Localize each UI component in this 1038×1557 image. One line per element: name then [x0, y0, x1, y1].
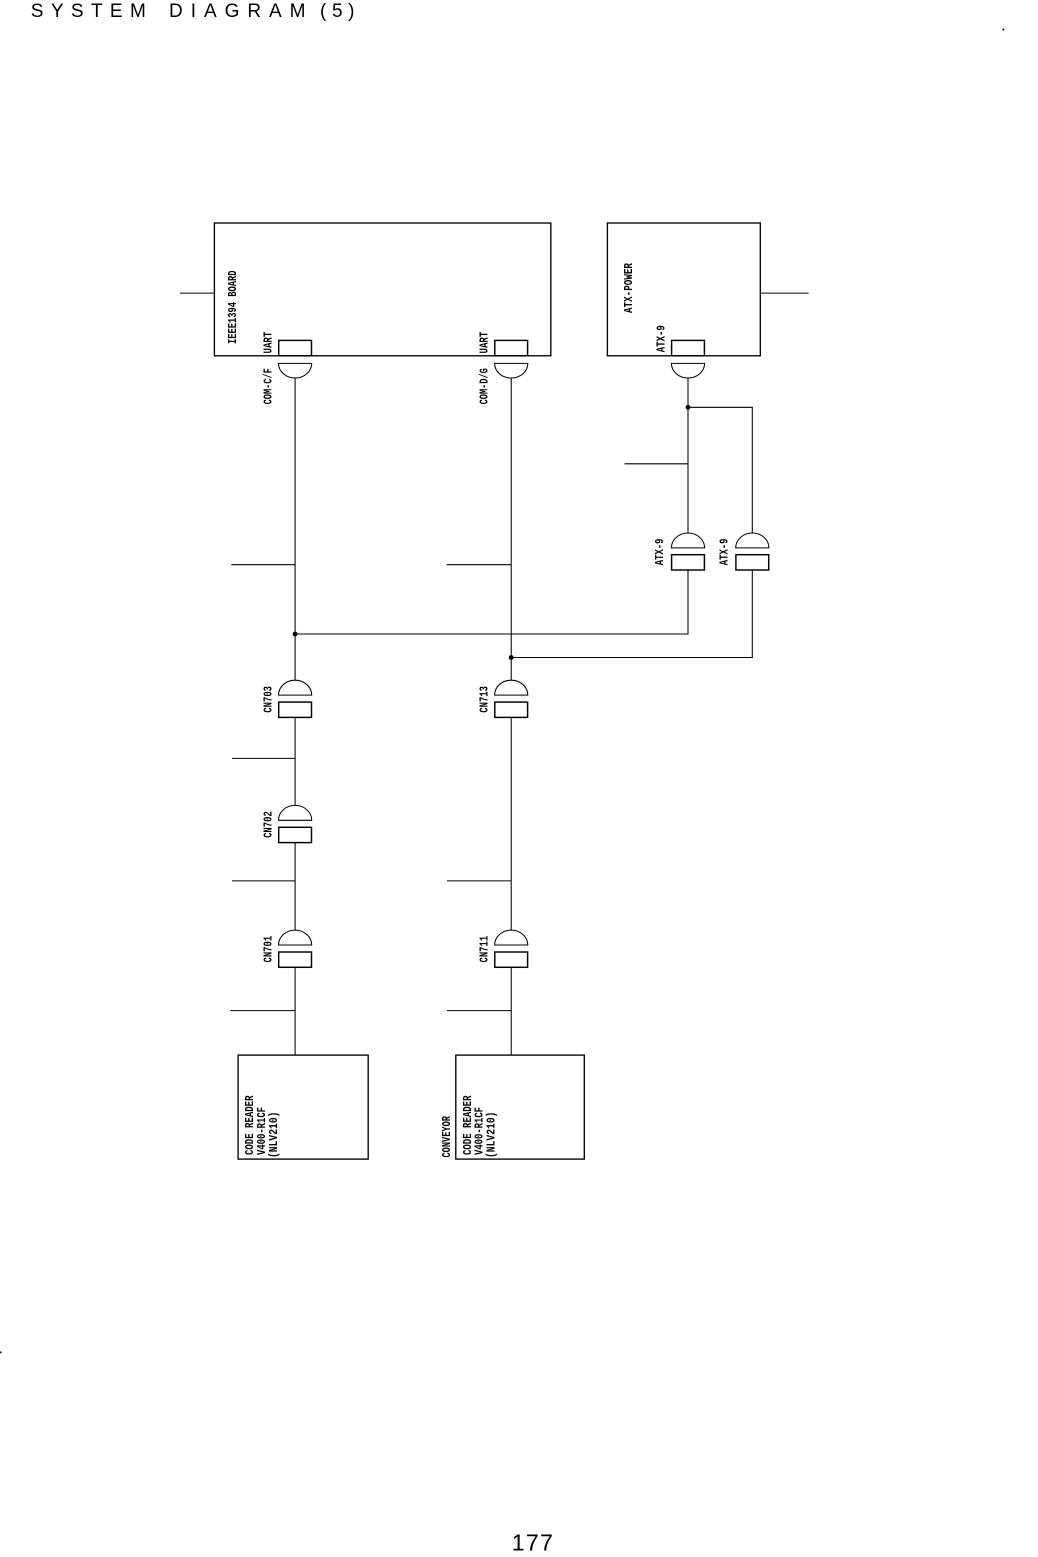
wire ATX-9 down to mid ATX-9 plug: [687, 378, 689, 533]
wire CN711 to CONVEYOR CODE READER box: [510, 967, 512, 1055]
svg-text:(NLV210): (NLV210): [486, 1112, 499, 1159]
wire CN701 to CODE READER box: [294, 967, 296, 1055]
wire stub left between CN713 and CN711: [447, 880, 511, 882]
wire stub left between CN703 and CN702: [232, 757, 295, 759]
svg-text:COM-D/G: COM-D/G: [479, 368, 492, 404]
wire CN703 to CN702: [294, 717, 296, 805]
wire stub left below CN701: [230, 1010, 295, 1012]
wire CN713 to CN711: [510, 717, 512, 930]
CODE READER box: [238, 1055, 368, 1159]
connector ATX-9 plug left (mid): [671, 533, 704, 570]
IEEE1394 BOARD box: [214, 223, 550, 356]
junction node on COM-D/G net: [509, 655, 514, 660]
ATX-POWER box: [607, 223, 760, 356]
svg-text:UART: UART: [479, 332, 492, 354]
wire stub left of IEEE1394 board: [180, 292, 214, 294]
connector CN703: [279, 680, 312, 717]
svg-text:CN711: CN711: [479, 936, 492, 963]
svg-text:CONVEYOR: CONVEYOR: [441, 1116, 454, 1158]
svg-text:V400-R1CF: V400-R1CF: [474, 1107, 487, 1155]
connector CN702: [279, 805, 312, 842]
svg-text:CN713: CN713: [479, 686, 492, 713]
svg-text:(5): (5): [320, 1, 355, 22]
connector CN713: [495, 680, 528, 717]
CONVEYOR CODE READER box: [456, 1055, 585, 1159]
wire from left ATX-9 plug to COM-C/F net: [295, 570, 688, 634]
wire stub left between CN702 and CN701: [232, 880, 295, 882]
connector UART (COM-C/F) on IEEE1394 board: [279, 340, 312, 378]
wire COM-C/F down to CN703: [294, 378, 296, 680]
svg-text:CN701: CN701: [262, 936, 275, 963]
svg-text:COM-C/F: COM-C/F: [262, 368, 275, 404]
connector CN711: [495, 930, 528, 967]
svg-text:IEEE1394 BOARD: IEEE1394 BOARD: [227, 270, 240, 344]
speck top right: [1002, 29, 1004, 31]
junction node on COM-C/F net: [293, 632, 298, 637]
wire stub left of COM-D/G drop: [447, 564, 512, 566]
svg-text:UART: UART: [262, 332, 275, 354]
connector UART (COM-D/G) on IEEE1394 board: [495, 340, 528, 378]
speck left edge: [0, 1352, 1, 1354]
wire branch right to second ATX-9 plug: [688, 407, 752, 533]
wire stub left of ATX drop: [625, 463, 689, 465]
wire COM-D/G down to CN713: [510, 378, 512, 680]
junction node on ATX wire: [686, 405, 691, 410]
connector ATX-9 plug right (mid): [736, 533, 769, 570]
svg-text:177: 177: [512, 1529, 554, 1555]
connector CN701: [279, 930, 312, 967]
svg-text:ATX-9: ATX-9: [656, 325, 669, 352]
svg-text:ATX-9: ATX-9: [654, 538, 667, 565]
svg-text:V400-R1CF: V400-R1CF: [256, 1107, 269, 1155]
svg-text:ATX-9: ATX-9: [718, 538, 731, 565]
wire stub left below CN711: [447, 1010, 511, 1012]
wire stub right of ATX-POWER box: [760, 292, 808, 294]
wire from right ATX-9 plug to COM-D/G net: [511, 570, 752, 658]
connector ATX-9 on ATX-POWER box: [671, 340, 704, 378]
svg-text:CN702: CN702: [262, 811, 275, 838]
wire CN702 to CN701: [294, 843, 296, 931]
svg-text:ATX-POWER: ATX-POWER: [623, 263, 636, 313]
svg-text:(NLV210): (NLV210): [268, 1112, 281, 1159]
wire stub left of COM-C/F drop: [231, 564, 295, 566]
svg-text:CN703: CN703: [262, 686, 275, 713]
